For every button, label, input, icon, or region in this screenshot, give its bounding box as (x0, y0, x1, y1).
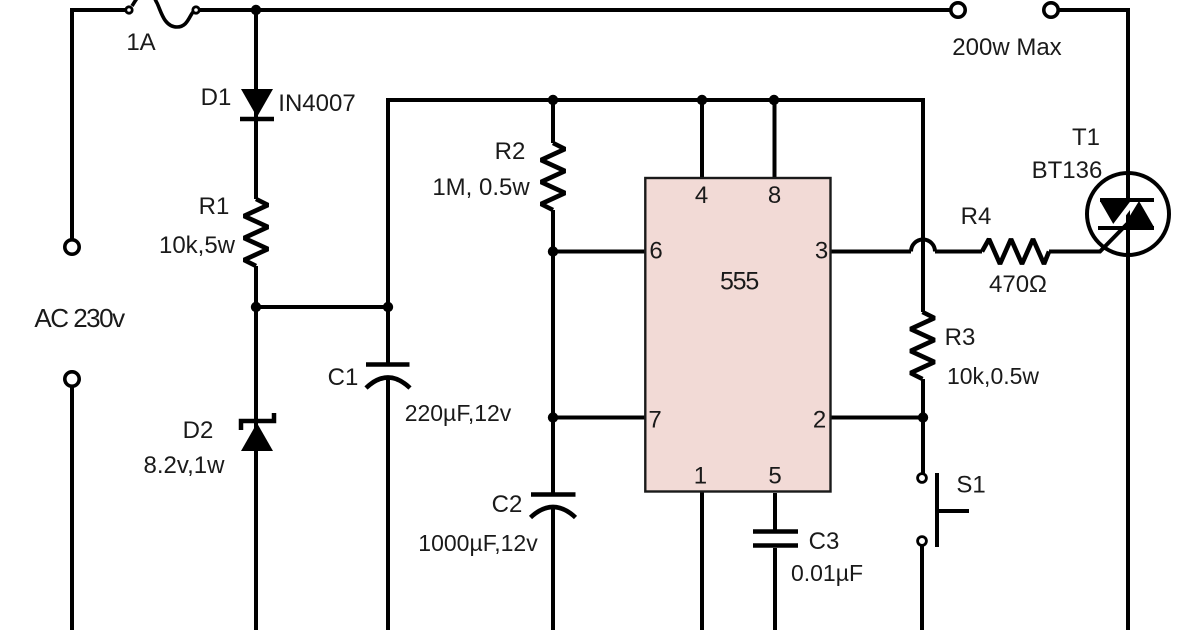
switch S1 plunger bar (935, 473, 939, 547)
resistor R4 zigzag (982, 239, 1049, 264)
junction node: R1/D2 (251, 302, 261, 312)
wire: pin 2 to R3/S1 node (830, 416, 923, 420)
wire: C1 vertical upper (386, 100, 390, 365)
wire: pin 6 (553, 250, 646, 254)
wire: vertical branch from top wire through D1,R1,D2 (upper part) (254, 10, 258, 199)
svg-text:8: 8 (768, 182, 781, 209)
wire: horizontal branch R1/D2 node to C1 (256, 305, 388, 309)
junction node: Vcc rail at pin8 (769, 95, 779, 105)
wire: S1 bottom to bottom edge (920, 546, 924, 630)
diode D1 triangle (241, 89, 273, 117)
svg-text:6: 6 (649, 238, 662, 265)
svg-text:470Ω: 470Ω (989, 271, 1047, 298)
triac T1 top bar (1100, 198, 1154, 202)
junction node: Vcc rail at pin4 (697, 95, 707, 105)
capacitor C1 top plate (366, 362, 410, 367)
junction node: pin7/C2 (548, 412, 558, 422)
svg-text:200w Max: 200w Max (952, 34, 1061, 61)
svg-text:BT136: BT136 (1032, 157, 1103, 184)
zener D2 bar with ticks (241, 413, 274, 430)
wire: top AC line middle segment to load terminal (200, 8, 951, 12)
triac T1 circle (1087, 173, 1169, 255)
capacitor C2 top plate (531, 492, 576, 497)
capacitor C3 top plate (753, 529, 798, 534)
svg-text:5: 5 (768, 462, 781, 489)
wire: pin 4 (700, 100, 704, 179)
wire: R2 bottom down through pin6/pin7 nodes to C2 (551, 210, 555, 495)
switch S1 actuator arm (937, 509, 969, 513)
terminal: load output right (1044, 3, 1058, 17)
wire: R3 branch from Vcc rail down (921, 98, 925, 312)
svg-text:10k,5w: 10k,5w (159, 232, 236, 259)
switch S1 lower contact circle (918, 537, 927, 546)
IC U1 555 body (645, 178, 830, 492)
wire: top right segment to triac vertical (1058, 8, 1130, 12)
svg-text:4: 4 (695, 182, 708, 209)
resistor R3 zigzag (911, 312, 935, 379)
svg-text:AC 230v: AC 230v (34, 303, 125, 333)
svg-text:D1: D1 (201, 84, 232, 111)
svg-text:R3: R3 (945, 324, 976, 351)
wire: pin 8 (773, 100, 777, 179)
svg-text:0.01µF: 0.01µF (791, 560, 863, 586)
svg-text:IN4007: IN4007 (278, 90, 355, 117)
svg-text:1M, 0.5w: 1M, 0.5w (432, 174, 530, 201)
triac T1 right triangle (1123, 201, 1154, 227)
triac T1 white gap (1111, 198, 1136, 231)
svg-text:555: 555 (720, 267, 758, 295)
wire: Vcc horizontal rail (386, 98, 923, 102)
svg-text:T1: T1 (1072, 124, 1100, 151)
svg-text:S1: S1 (956, 472, 985, 499)
triac T1 left triangle (1100, 201, 1131, 227)
terminal: load output left (951, 3, 965, 17)
wire: R3 bottom to S1 top circle (921, 379, 925, 473)
diode D1 cathode bar (240, 117, 274, 122)
wire: hop to R4 (935, 250, 982, 254)
terminal: AC input upper (65, 240, 79, 254)
resistor R1 zigzag (244, 199, 268, 266)
wire: pin 5 to C3 (773, 493, 777, 531)
wire: R4 to triac gate (1049, 224, 1127, 252)
wire: hop over vertical wire (911, 240, 935, 252)
wire: left AC vertical top (70, 8, 74, 240)
svg-text:3: 3 (815, 238, 828, 265)
zener D2 triangle (241, 423, 273, 451)
wire: top AC line left segment (70, 8, 125, 12)
junction node: fuse to D1 (251, 5, 261, 15)
junction node: pin2/R3/S1 (918, 412, 928, 422)
svg-text:D2: D2 (183, 417, 214, 444)
svg-text:R2: R2 (495, 138, 526, 165)
terminal: AC input lower (65, 372, 79, 386)
svg-text:C1: C1 (328, 364, 359, 391)
svg-text:10k,0.5w: 10k,0.5w (947, 363, 1039, 389)
wire: left AC vertical bottom (70, 387, 74, 630)
svg-text:1A: 1A (126, 29, 155, 56)
svg-text:220µF,12v: 220µF,12v (405, 400, 512, 426)
svg-text:7: 7 (648, 407, 661, 434)
wire: pin 3 to hop (830, 250, 911, 254)
svg-text:2: 2 (813, 407, 826, 434)
junction node: Vcc rail at R2 (548, 95, 558, 105)
wire: vertical below R1 down to bottom edge (254, 266, 258, 630)
svg-text:C2: C2 (492, 491, 523, 518)
wire: C1 vertical lower (386, 377, 390, 630)
wire: pin 7 (553, 416, 646, 420)
triac T1 bottom bar (1098, 226, 1154, 230)
svg-text:1000µF,12v: 1000µF,12v (418, 530, 538, 556)
capacitor C3 bottom plate (753, 543, 798, 548)
svg-text:C3: C3 (809, 528, 840, 555)
wire: C2 lower to bottom edge (551, 509, 555, 630)
junction node: C1 branch (383, 302, 393, 312)
junction node: pin6/R2 (548, 246, 558, 256)
resistor R2 zigzag (541, 143, 565, 210)
capacitor C2 curved plate (531, 507, 576, 518)
svg-text:R1: R1 (199, 193, 230, 220)
svg-text:1: 1 (694, 462, 707, 489)
switch S1 upper contact circle (918, 474, 927, 483)
wire: C3 to bottom edge (773, 548, 777, 630)
svg-text:8.2v,1w: 8.2v,1w (144, 452, 226, 479)
wire: triac main vertical (1126, 8, 1130, 630)
capacitor C1 curved plate (366, 378, 410, 389)
fuse F1 (1A) (126, 0, 199, 27)
wire: R2 branch top (551, 100, 555, 143)
wire: pin 1 down to bottom edge (700, 490, 704, 630)
svg-text:R4: R4 (961, 203, 992, 230)
